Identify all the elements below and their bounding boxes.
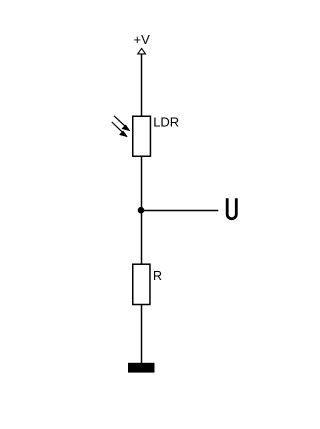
power terminal triangle <box>138 48 146 54</box>
node junction dot <box>138 207 145 214</box>
LDR light arrow 2 <box>112 122 127 137</box>
svg-text:LDR: LDR <box>153 115 179 130</box>
resistor R body <box>133 264 150 304</box>
svg-text:R: R <box>153 269 162 283</box>
wire: R to ground <box>141 305 143 364</box>
LDR light arrow 1 <box>114 116 130 131</box>
wire: node to R <box>141 211 143 264</box>
resistor (LDR) body <box>133 116 151 156</box>
svg-text:+V: +V <box>134 32 151 47</box>
ground <box>128 363 155 373</box>
wire: +V to LDR <box>141 54 143 116</box>
wire: LDR to node <box>141 157 143 211</box>
wire: node to U output <box>141 210 218 212</box>
label U (output) <box>227 198 236 219</box>
